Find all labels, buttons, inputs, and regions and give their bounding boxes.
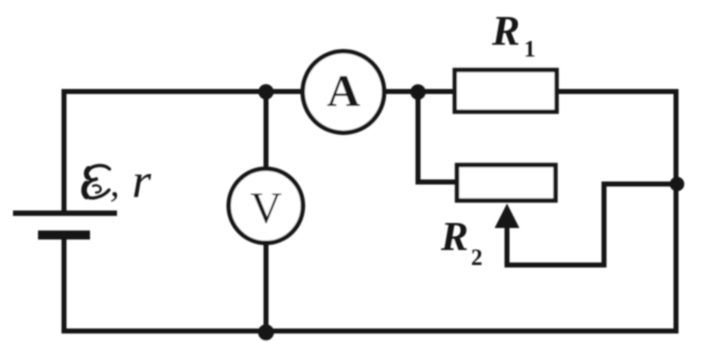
rheostat R2 <box>457 165 556 201</box>
resistor R1 <box>455 70 557 112</box>
svg-text:A: A <box>327 65 360 116</box>
wire R2 wiper return <box>507 184 676 265</box>
battery plate short thick (negative) <box>38 231 90 240</box>
wire top-left: battery to ammeter <box>64 92 301 214</box>
svg-text:R: R <box>440 213 468 259</box>
wire bottom <box>64 329 676 334</box>
svg-text:V: V <box>250 184 282 233</box>
junction node after ammeter <box>410 84 425 99</box>
battery plate long (positive) <box>13 211 117 216</box>
wire ammeter to R1 <box>386 89 453 94</box>
wire R1 to top-right corner and down right side <box>558 92 676 332</box>
svg-text:r: r <box>132 153 152 208</box>
voltmeter V1 circle <box>229 169 303 243</box>
junction node right side <box>670 177 685 192</box>
label EMF script E <box>83 166 109 199</box>
rheostat wiper arrow <box>495 204 520 229</box>
svg-text:1: 1 <box>524 37 536 62</box>
wire node to R2 left <box>418 92 455 183</box>
wire voltmeter bottom branch <box>264 245 269 331</box>
wire voltmeter top branch <box>264 92 269 168</box>
svg-text:,: , <box>110 163 120 205</box>
svg-text:2: 2 <box>471 245 483 270</box>
ammeter A1 circle <box>303 51 384 132</box>
wire battery bottom to bottom-left corner <box>62 239 67 331</box>
junction node before ammeter <box>258 84 273 99</box>
junction node bottom <box>258 324 274 340</box>
svg-text:R: R <box>491 9 520 55</box>
